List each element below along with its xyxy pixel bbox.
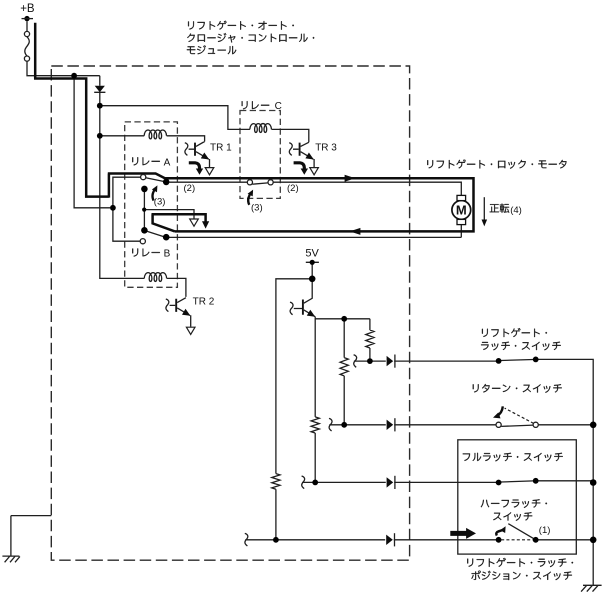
svg-text:(1): (1) bbox=[539, 525, 551, 536]
svg-text:C: C bbox=[275, 101, 282, 112]
svg-text:5V: 5V bbox=[305, 248, 319, 260]
svg-text:(2): (2) bbox=[184, 183, 196, 194]
svg-text:+B: +B bbox=[20, 3, 35, 15]
svg-text:TR 2: TR 2 bbox=[193, 296, 215, 307]
svg-text:(4): (4) bbox=[510, 205, 522, 216]
svg-text:(3): (3) bbox=[154, 196, 166, 207]
svg-text:(3): (3) bbox=[251, 202, 263, 213]
svg-text:(2): (2) bbox=[287, 183, 299, 194]
svg-text:A: A bbox=[164, 157, 171, 168]
svg-text:TR 3: TR 3 bbox=[315, 142, 337, 153]
svg-text:TR 1: TR 1 bbox=[210, 142, 232, 153]
svg-text:B: B bbox=[164, 249, 171, 260]
svg-text:M: M bbox=[456, 202, 467, 217]
